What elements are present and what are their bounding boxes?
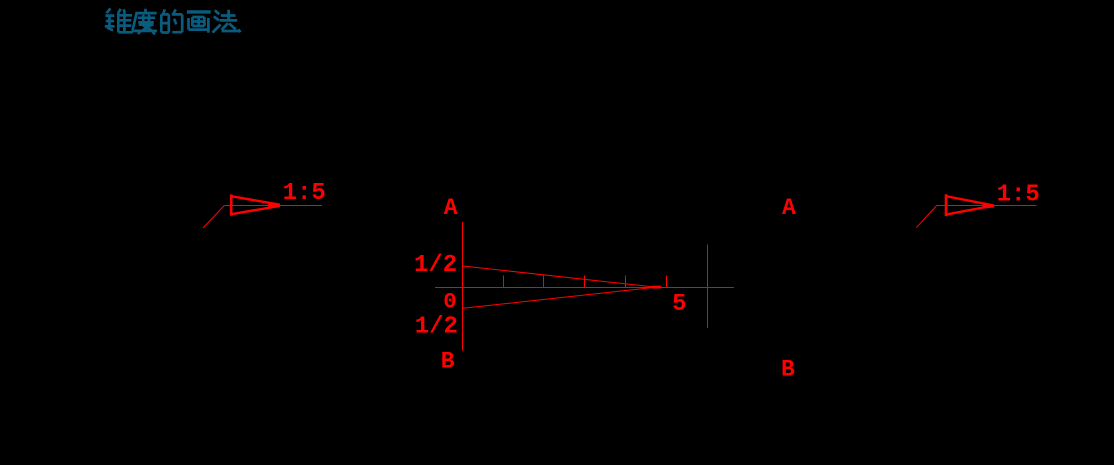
left taper symbol: leader line [203, 206, 224, 229]
middle diagram: lower slant line [463, 288, 652, 309]
的 [161, 9, 182, 32]
svg-text:1:5: 1:5 [997, 181, 1040, 208]
right taper symbol: triangle edges [946, 196, 994, 214]
middle diagram: vertical axis AB [462, 222, 464, 351]
svg-text:1:5: 1:5 [283, 180, 326, 207]
left taper symbol: triangle edges [231, 196, 280, 214]
right taper symbol: apex fill [983, 204, 995, 209]
svg-text:0: 0 [443, 289, 457, 315]
middle diagram: unit ticks [504, 276, 667, 288]
middle diagram: convergence arrowhead [652, 286, 662, 289]
svg-text:A: A [444, 195, 458, 221]
svg-text:A: A [782, 195, 796, 221]
right taper symbol: leader line [916, 206, 936, 228]
锥 [105, 8, 133, 32]
svg-text:1/2: 1/2 [414, 252, 457, 279]
画 [187, 12, 211, 33]
svg-text:5: 5 [672, 291, 686, 318]
svg-text:B: B [441, 349, 455, 375]
middle diagram: upper slant line [463, 266, 652, 287]
middle diagram: crosshair vertical [707, 245, 709, 329]
middle diagram: horizontal axis [435, 287, 734, 289]
right taper symbol: vertical bar [945, 194, 948, 216]
left taper symbol: apex fill [268, 203, 280, 208]
度 [132, 9, 157, 34]
left taper symbol: vertical bar [230, 194, 233, 215]
svg-text:B: B [781, 356, 795, 382]
法 [213, 10, 241, 33]
right taper symbol: center line [937, 205, 1037, 207]
svg-text:1/2: 1/2 [415, 313, 458, 340]
title 锥度的画法 (teal CJK title drawn as strokes) [105, 8, 241, 34]
left taper symbol: center line [224, 205, 322, 207]
